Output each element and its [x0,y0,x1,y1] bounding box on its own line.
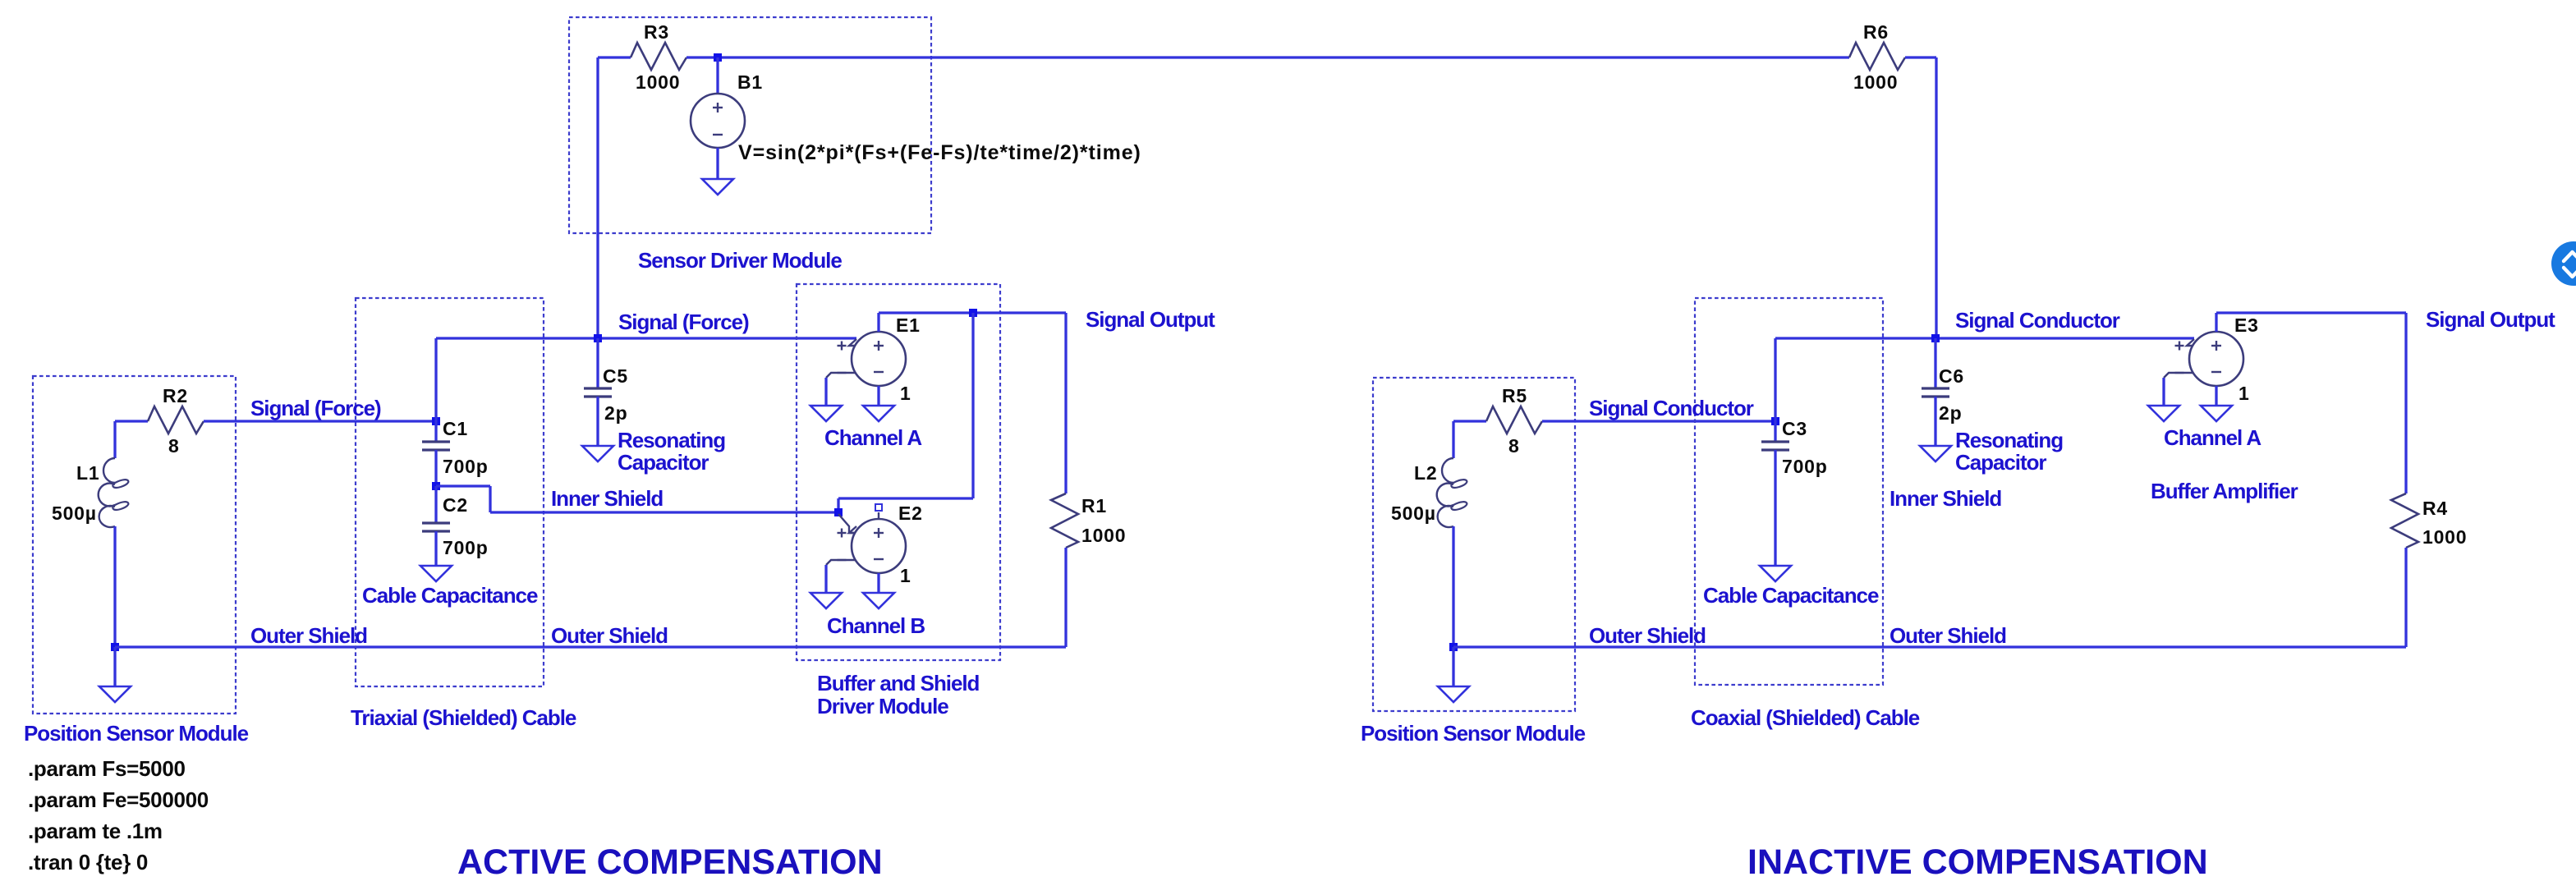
svg-text:Signal Output: Signal Output [2426,307,2555,332]
svg-text:500µ: 500µ [1391,503,1436,524]
svg-text:1: 1 [900,565,911,586]
svg-text:.param Fe=500000: .param Fe=500000 [28,787,209,812]
svg-text:500µ: 500µ [52,503,97,524]
svg-text:1: 1 [2239,383,2250,404]
svg-text:Cable Capacitance: Cable Capacitance [362,583,538,608]
svg-text:Position Sensor Module: Position Sensor Module [1361,721,1586,746]
svg-text:Outer Shield: Outer Shield [551,623,668,648]
svg-text:Inner Shield: Inner Shield [551,486,663,511]
svg-text:R4: R4 [2422,498,2448,519]
svg-text:2p: 2p [1939,402,1962,424]
svg-text:R5: R5 [1502,385,1527,406]
svg-text:.param te .1m: .param te .1m [28,819,163,843]
svg-text:Channel A: Channel A [824,425,922,450]
svg-text:INACTIVE COMPENSATION: INACTIVE COMPENSATION [1747,842,2208,882]
svg-text:Channel B: Channel B [827,613,925,638]
svg-text:Signal Output: Signal Output [1086,307,1215,332]
svg-text:Buffer and Shield: Buffer and Shield [817,671,980,695]
svg-text:Channel A: Channel A [2164,425,2261,450]
svg-text:C2: C2 [443,494,468,516]
svg-text:700p: 700p [443,537,489,558]
svg-text:Position Sensor Module: Position Sensor Module [24,721,249,746]
svg-text:E1: E1 [896,314,921,336]
svg-text:Resonating: Resonating [1955,428,2063,452]
svg-text:.tran 0 {te} 0: .tran 0 {te} 0 [28,850,148,874]
svg-text:R6: R6 [1863,21,1889,43]
svg-text:.param Fs=5000: .param Fs=5000 [28,756,186,781]
svg-text:Capacitor: Capacitor [618,450,709,475]
svg-text:2p: 2p [604,402,627,424]
svg-text:Outer Shield: Outer Shield [1589,623,1706,648]
svg-text:C1: C1 [443,418,468,439]
svg-text:1: 1 [900,383,911,404]
svg-text:L2: L2 [1414,462,1437,484]
svg-text:L1: L1 [76,462,99,484]
svg-text:Resonating: Resonating [618,428,725,452]
svg-text:1000: 1000 [2422,526,2467,548]
svg-text:Buffer Amplifier: Buffer Amplifier [2151,479,2298,503]
svg-text:Capacitor: Capacitor [1955,450,2046,475]
svg-text:Signal (Force): Signal (Force) [250,396,381,420]
svg-text:C6: C6 [1939,365,1964,387]
svg-text:C5: C5 [603,365,628,387]
svg-text:V=sin(2*pi*(Fs+(Fe-Fs)/te*time: V=sin(2*pi*(Fs+(Fe-Fs)/te*time/2)*time) [738,141,1141,164]
svg-text:1000: 1000 [636,71,680,93]
svg-text:8: 8 [1508,435,1520,457]
svg-text:E2: E2 [898,503,923,524]
svg-text:700p: 700p [1782,456,1828,477]
svg-text:Driver Module: Driver Module [817,694,948,718]
svg-text:R1: R1 [1081,495,1107,516]
svg-text:Signal (Force): Signal (Force) [618,310,749,334]
svg-text:Sensor Driver Module: Sensor Driver Module [638,248,842,273]
svg-text:Signal Conductor: Signal Conductor [1955,308,2120,333]
svg-text:700p: 700p [443,456,489,477]
svg-text:Coaxial (Shielded) Cable: Coaxial (Shielded) Cable [1691,705,1920,730]
svg-text:8: 8 [168,435,180,457]
svg-text:R3: R3 [644,21,669,43]
svg-text:Outer Shield: Outer Shield [250,623,367,648]
svg-text:Cable Capacitance: Cable Capacitance [1703,583,1879,608]
svg-text:Inner Shield: Inner Shield [1890,486,2001,511]
svg-text:R2: R2 [163,385,188,406]
svg-text:Signal Conductor: Signal Conductor [1589,396,1754,420]
svg-text:1000: 1000 [1853,71,1898,93]
svg-text:C3: C3 [1782,418,1807,439]
svg-text:E3: E3 [2234,314,2259,336]
svg-text:ACTIVE COMPENSATION: ACTIVE COMPENSATION [457,842,883,882]
svg-text:1000: 1000 [1081,525,1126,546]
svg-text:Outer Shield: Outer Shield [1890,623,2006,648]
svg-text:B1: B1 [737,71,763,93]
svg-text:Triaxial (Shielded) Cable: Triaxial (Shielded) Cable [351,705,576,730]
